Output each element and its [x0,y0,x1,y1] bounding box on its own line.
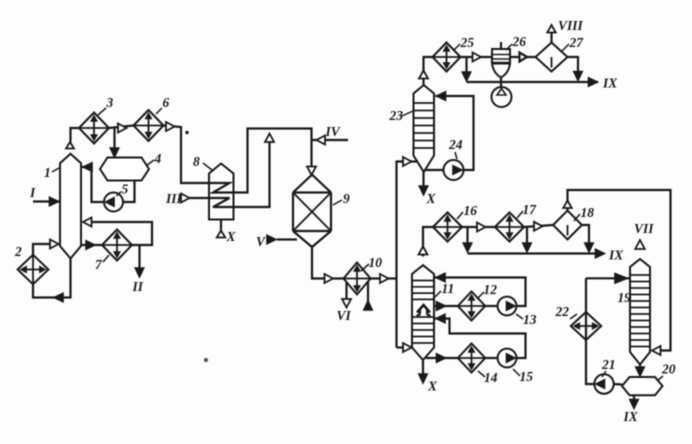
svg-text:VII: VII [634,221,654,236]
svg-text:I: I [29,185,36,200]
svg-text:27: 27 [569,35,585,50]
svg-text:26: 26 [512,34,527,49]
svg-text:VI: VI [337,308,352,323]
svg-text:IX: IX [602,76,618,91]
svg-text:II: II [132,279,144,294]
svg-text:3: 3 [106,95,114,110]
svg-text:23: 23 [389,108,404,123]
svg-text:IX: IX [608,248,624,263]
svg-text:21: 21 [601,357,616,372]
svg-text:10: 10 [369,255,383,270]
svg-text:V: V [256,234,266,249]
svg-text:1: 1 [44,165,51,180]
svg-text:4: 4 [154,151,162,166]
svg-text:6: 6 [163,95,170,110]
svg-text:X: X [426,191,437,206]
svg-text:14: 14 [484,370,498,385]
svg-text:22: 22 [555,304,570,319]
svg-text:11: 11 [442,281,455,296]
svg-text:9: 9 [343,191,350,206]
svg-text:20: 20 [661,362,676,377]
svg-text:25: 25 [460,35,475,50]
svg-text:X: X [226,229,237,244]
svg-text:17: 17 [523,202,538,217]
svg-text:12: 12 [484,282,498,297]
svg-text:IV: IV [325,124,341,139]
svg-text:2: 2 [14,244,22,259]
svg-text:III: III [165,191,183,206]
svg-text:5: 5 [122,182,129,197]
svg-text:15: 15 [520,369,534,384]
svg-text:18: 18 [581,205,595,220]
svg-text:IX: IX [623,409,639,424]
svg-text:X: X [427,379,438,394]
svg-text:8: 8 [193,154,200,169]
svg-text:24: 24 [448,137,463,152]
svg-text:VIII: VIII [558,18,584,33]
svg-text:13: 13 [523,312,537,327]
svg-text:16: 16 [464,203,478,218]
svg-text:19: 19 [618,290,632,305]
